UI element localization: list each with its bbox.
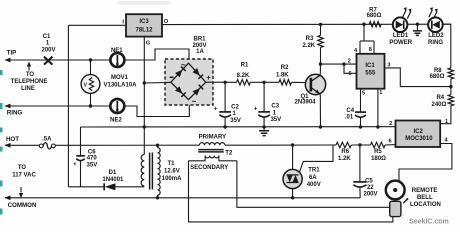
pin label 4 (354, 48, 358, 54)
diode D1 (104, 183, 144, 190)
capacitor C4 (355, 112, 366, 127)
svg-text:R3: R3 (306, 36, 314, 42)
voltage regulator IC3 78L12 (126, 14, 162, 36)
svg-text:C3: C3 (271, 104, 279, 110)
svg-text:.01: .01 (345, 114, 354, 120)
svg-text:R6: R6 (341, 149, 349, 155)
transformer T2 primary (199, 143, 225, 146)
wire HOT to T2 (55, 144, 199, 146)
ground between LEDs (413, 24, 422, 35)
node C5 tap (358, 143, 361, 146)
arrow to COMMON (19, 187, 23, 198)
node T1 primary top (156, 144, 159, 147)
svg-text:+: + (214, 105, 218, 112)
label R6 (338, 149, 351, 162)
svg-text:C4: C4 (346, 108, 354, 114)
svg-text:T2: T2 (225, 151, 233, 157)
resistor R6 (336, 142, 351, 147)
node T1 primary bottom (156, 196, 159, 199)
capacitor C2 (214, 82, 231, 127)
label C6 (87, 149, 98, 168)
svg-text:TO: TO (18, 165, 27, 171)
svg-text:180Ω: 180Ω (371, 156, 386, 162)
pin label 4 IC2 (445, 138, 449, 144)
pin label 1 (379, 90, 382, 96)
wire branch to pin6 (344, 64, 357, 73)
svg-text:12.6V: 12.6V (164, 168, 180, 174)
LED LED1 (393, 17, 408, 32)
svg-text:LOCATION: LOCATION (410, 202, 441, 208)
label TO TELEPHONE LINE (11, 72, 48, 92)
svg-text:200V: 200V (363, 192, 377, 198)
svg-text:35V: 35V (87, 163, 98, 169)
svg-text:NE1: NE1 (111, 48, 123, 54)
pin label 8 (369, 47, 372, 53)
svg-text:BELL: BELL (417, 195, 433, 201)
wire TR1 bottom (292, 189, 294, 198)
svg-text:2.2K: 2.2K (302, 43, 315, 49)
wire R1 to R2 (250, 81, 279, 83)
node rail 555 supply (362, 23, 365, 26)
svg-text:8: 8 (369, 47, 372, 53)
node pin1 bus (376, 125, 379, 128)
svg-text:1: 1 (379, 90, 382, 96)
pin label O (164, 19, 169, 25)
node pin3 R8 R4 (449, 85, 452, 88)
svg-text:SeekIC.com: SeekIC.com (409, 219, 449, 226)
svg-text:IC3: IC3 (139, 19, 149, 25)
wire IC3 input vertical (67, 25, 69, 187)
svg-text:TIP: TIP (7, 50, 17, 57)
svg-text:680Ω: 680Ω (430, 74, 445, 80)
svg-text:+: + (73, 162, 77, 168)
svg-text:2: 2 (348, 59, 351, 65)
wire secondary right to bell (237, 161, 390, 208)
svg-text:2: 2 (389, 121, 392, 127)
svg-text:200V: 200V (192, 43, 206, 49)
svg-text:POWER: POWER (389, 40, 412, 46)
label COMMON (8, 202, 37, 209)
label PRIMARY (199, 135, 226, 141)
bridge diamond with diodes (171, 63, 206, 99)
scan smudge top (118, 1, 170, 5)
remote bell (386, 181, 409, 217)
bridge rectifier BR1 box (165, 59, 213, 105)
transformer T2 core (198, 150, 224, 152)
resistor R7 (369, 22, 381, 27)
node MOV1 top (89, 58, 92, 61)
transformer T2 secondary (189, 156, 237, 161)
svg-text:IC2: IC2 (414, 129, 424, 135)
svg-text:R5: R5 (374, 149, 382, 155)
capacitor C6 (73, 127, 85, 187)
label TO 117 VAC (12, 165, 36, 178)
svg-text:LED1: LED1 (393, 33, 409, 39)
resistor R5 (370, 142, 385, 147)
label R1 (237, 63, 250, 79)
label HOT (6, 136, 19, 143)
timer IC1 555 (357, 54, 385, 89)
wire IC3 output rail (162, 23, 451, 25)
label TR1 (307, 168, 321, 189)
node R3 rail (319, 23, 322, 26)
svg-text:C2: C2 (231, 105, 239, 111)
svg-text:1.2K: 1.2K (338, 156, 351, 162)
label MOV1 (103, 75, 137, 89)
label T2 (225, 151, 233, 157)
wire R5 to IC2 pin6 (385, 144, 395, 146)
label R5 (371, 149, 386, 162)
resistor R8 (448, 68, 453, 79)
wire ground bus (81, 126, 396, 128)
wire junction to R4 (450, 87, 452, 95)
resistor R1 (237, 80, 251, 85)
svg-text:+: + (206, 73, 211, 82)
bridge AC marks (181, 60, 197, 106)
label R8 (430, 68, 445, 80)
label R3 (302, 36, 315, 49)
svg-text:470: 470 (87, 156, 98, 162)
wire R6 to R5 (351, 144, 370, 146)
label SECONDARY (190, 165, 228, 171)
wire HOT line (5, 143, 41, 148)
wire D1 line (68, 186, 103, 188)
svg-text:240Ω: 240Ω (431, 102, 446, 108)
wire T2 to TR1 (225, 144, 336, 146)
label Q1 (294, 94, 316, 106)
capacitor C3 (254, 82, 270, 127)
pin label 3 (387, 63, 390, 69)
svg-text:5: 5 (362, 90, 365, 96)
label R4 (431, 95, 446, 108)
wire TR1 gate (299, 145, 333, 173)
label C2 (230, 105, 241, 124)
resistor R3 (318, 24, 323, 64)
svg-text:400V: 400V (307, 182, 321, 188)
node pin5 bus (359, 125, 362, 128)
node IC3 gnd / bridge minus (143, 81, 146, 84)
wire R2 to Q1 base (292, 81, 306, 83)
svg-text:8.2K: 8.2K (237, 73, 250, 79)
wire rail to pins 4 8 (360, 24, 374, 54)
svg-text:1A: 1A (196, 49, 204, 55)
svg-text:100mA: 100mA (162, 176, 182, 182)
svg-text:R4: R4 (436, 95, 444, 101)
pin label 6 IC2 (389, 138, 392, 144)
wire bridge plus to R1 (206, 81, 237, 83)
pin label 2 IC2 (389, 121, 392, 127)
fuse .5A (39, 143, 55, 149)
svg-text:R1: R1 (241, 63, 249, 69)
wire pin5 C4 (360, 89, 362, 112)
label BR1 (192, 37, 206, 56)
wire IC3 input (68, 24, 126, 26)
label C5 (363, 178, 377, 197)
svg-text:6A: 6A (309, 175, 317, 181)
svg-text:V130LA10A: V130LA10A (103, 83, 137, 89)
svg-text:1: 1 (445, 119, 448, 125)
label REMOTE BELL LOCATION (410, 188, 441, 208)
svg-text:SECONDARY: SECONDARY (190, 165, 228, 171)
LED LED2 (428, 17, 443, 32)
node TR1 top (291, 143, 294, 146)
wire NE2 to bridge bottom (124, 99, 189, 116)
svg-text:117 VAC: 117 VAC (12, 172, 36, 178)
svg-text:.5A: .5A (42, 136, 52, 142)
node pin2 pin6 branch (342, 62, 345, 65)
wire secondary left to bell (189, 161, 393, 222)
svg-text:555: 555 (365, 71, 376, 77)
svg-text:BR1: BR1 (193, 37, 206, 43)
node C3 tap (262, 81, 265, 84)
svg-text:6: 6 (348, 71, 351, 77)
pin label G (146, 41, 150, 47)
svg-text:RING: RING (7, 110, 23, 117)
svg-text:MOC3010: MOC3010 (405, 136, 433, 142)
svg-text:IC1: IC1 (365, 63, 375, 69)
svg-text:~: ~ (181, 60, 186, 69)
label LED1 (389, 33, 412, 46)
wire LED2 to R8 (443, 24, 451, 68)
wire MOV1 top (90, 60, 92, 75)
svg-text:PRIMARY: PRIMARY (199, 135, 226, 141)
node C2 bus (223, 125, 226, 128)
resistor R4 (448, 95, 453, 106)
pin label 2 (348, 59, 351, 65)
varistor MOV1 (81, 75, 100, 94)
svg-text:C1: C1 (43, 34, 51, 40)
label C1 value (41, 34, 55, 54)
svg-text:LED2: LED2 (428, 33, 444, 39)
LED2 arrows (429, 7, 438, 18)
wire MOV1 bottom (90, 93, 92, 106)
svg-text:COMMON: COMMON (8, 202, 37, 209)
watermark SeekIC.com (409, 219, 449, 226)
wire NE1 to bridge jog (124, 49, 189, 63)
pin label I (122, 20, 124, 26)
svg-text:680Ω: 680Ω (367, 13, 382, 19)
LED1 arrows (403, 7, 412, 18)
svg-text:RING: RING (428, 40, 443, 46)
svg-text:HOT: HOT (6, 136, 19, 143)
bridge polarity (170, 73, 212, 82)
svg-text:TO: TO (26, 72, 35, 78)
wire COMMON line (5, 195, 361, 200)
label T1 (162, 161, 182, 182)
svg-text:REMOTE: REMOTE (412, 188, 438, 194)
wire Q1 collector (319, 64, 321, 75)
label R2 (276, 65, 289, 78)
triac TR1 (283, 169, 302, 188)
svg-text:R2: R2 (281, 65, 289, 71)
node LED junction (416, 23, 419, 26)
svg-text:MOV1: MOV1 (111, 75, 129, 81)
svg-text:6: 6 (389, 138, 392, 144)
svg-text:78L12: 78L12 (135, 28, 153, 34)
pin label 5 (362, 90, 365, 96)
svg-text:T1: T1 (167, 161, 175, 167)
neon lamp NE1 (110, 53, 124, 67)
wire IC3 ground (143, 37, 145, 155)
svg-text:35V: 35V (230, 118, 241, 124)
label LED2 (428, 33, 444, 46)
resistor R2 (279, 80, 291, 85)
svg-text:LINE: LINE (21, 86, 35, 92)
svg-text:1N4001: 1N4001 (102, 177, 124, 183)
wire IC2 pin4 to bell (399, 144, 452, 182)
arrow to TIP line (27, 62, 31, 71)
label RING (7, 110, 23, 117)
svg-text:1.8K: 1.8K (276, 72, 289, 78)
wire TIP line (5, 58, 111, 63)
label fuse (42, 136, 52, 142)
pin label 6 (348, 71, 351, 77)
node emitter bus (319, 125, 322, 128)
node TR1 common (291, 196, 294, 199)
node collector R3 (319, 62, 322, 65)
wire pin3 (385, 68, 452, 87)
svg-text:2N3904: 2N3904 (294, 100, 316, 106)
wire RING line (5, 104, 111, 109)
svg-text:D1: D1 (109, 170, 117, 176)
svg-text:200V: 200V (41, 48, 55, 54)
svg-text:TELEPHONE: TELEPHONE (11, 79, 48, 85)
label C3 (270, 104, 281, 123)
svg-text:TR1: TR1 (308, 168, 320, 174)
node C2 tap (223, 81, 226, 84)
svg-text:22: 22 (367, 185, 374, 191)
label C4 (345, 108, 355, 120)
node bus G wire (143, 125, 146, 128)
wire Q1 emitter (319, 94, 321, 127)
svg-text:~: ~ (192, 97, 197, 106)
ground symbol bus (259, 127, 269, 136)
scan artifact marks (0, 70, 3, 215)
optocoupler IC2 MOC3010 (396, 121, 441, 148)
node MOV1 bottom (89, 104, 92, 107)
wire pin1 down (377, 89, 379, 127)
svg-text:C5: C5 (365, 178, 373, 184)
svg-text:G: G (146, 41, 150, 47)
pin label 1 IC2 (445, 119, 448, 125)
wire bridge minus (144, 81, 171, 84)
label NE2 (110, 118, 122, 124)
label NE1 (111, 48, 123, 54)
wire R8 to junction (450, 79, 452, 87)
svg-text:C6: C6 (88, 149, 96, 155)
svg-text:NE2: NE2 (110, 118, 122, 124)
wire R4 to IC2 pin1 (440, 106, 451, 124)
svg-text:+: + (254, 105, 258, 112)
node C3 bus (262, 125, 265, 128)
label D1 (102, 170, 124, 183)
neon lamp NE2 (110, 99, 124, 113)
wire collector to IC1 pin2 (321, 63, 357, 65)
capacitor C1 (series X symbol) (44, 57, 52, 65)
svg-text:35V: 35V (270, 117, 281, 123)
label TIP (7, 50, 17, 57)
transformer T1 (141, 145, 160, 198)
label R7 (367, 7, 382, 19)
transistor Q1 (305, 74, 325, 94)
capacitor C5 (353, 145, 366, 198)
wire TR1 top (292, 145, 294, 170)
